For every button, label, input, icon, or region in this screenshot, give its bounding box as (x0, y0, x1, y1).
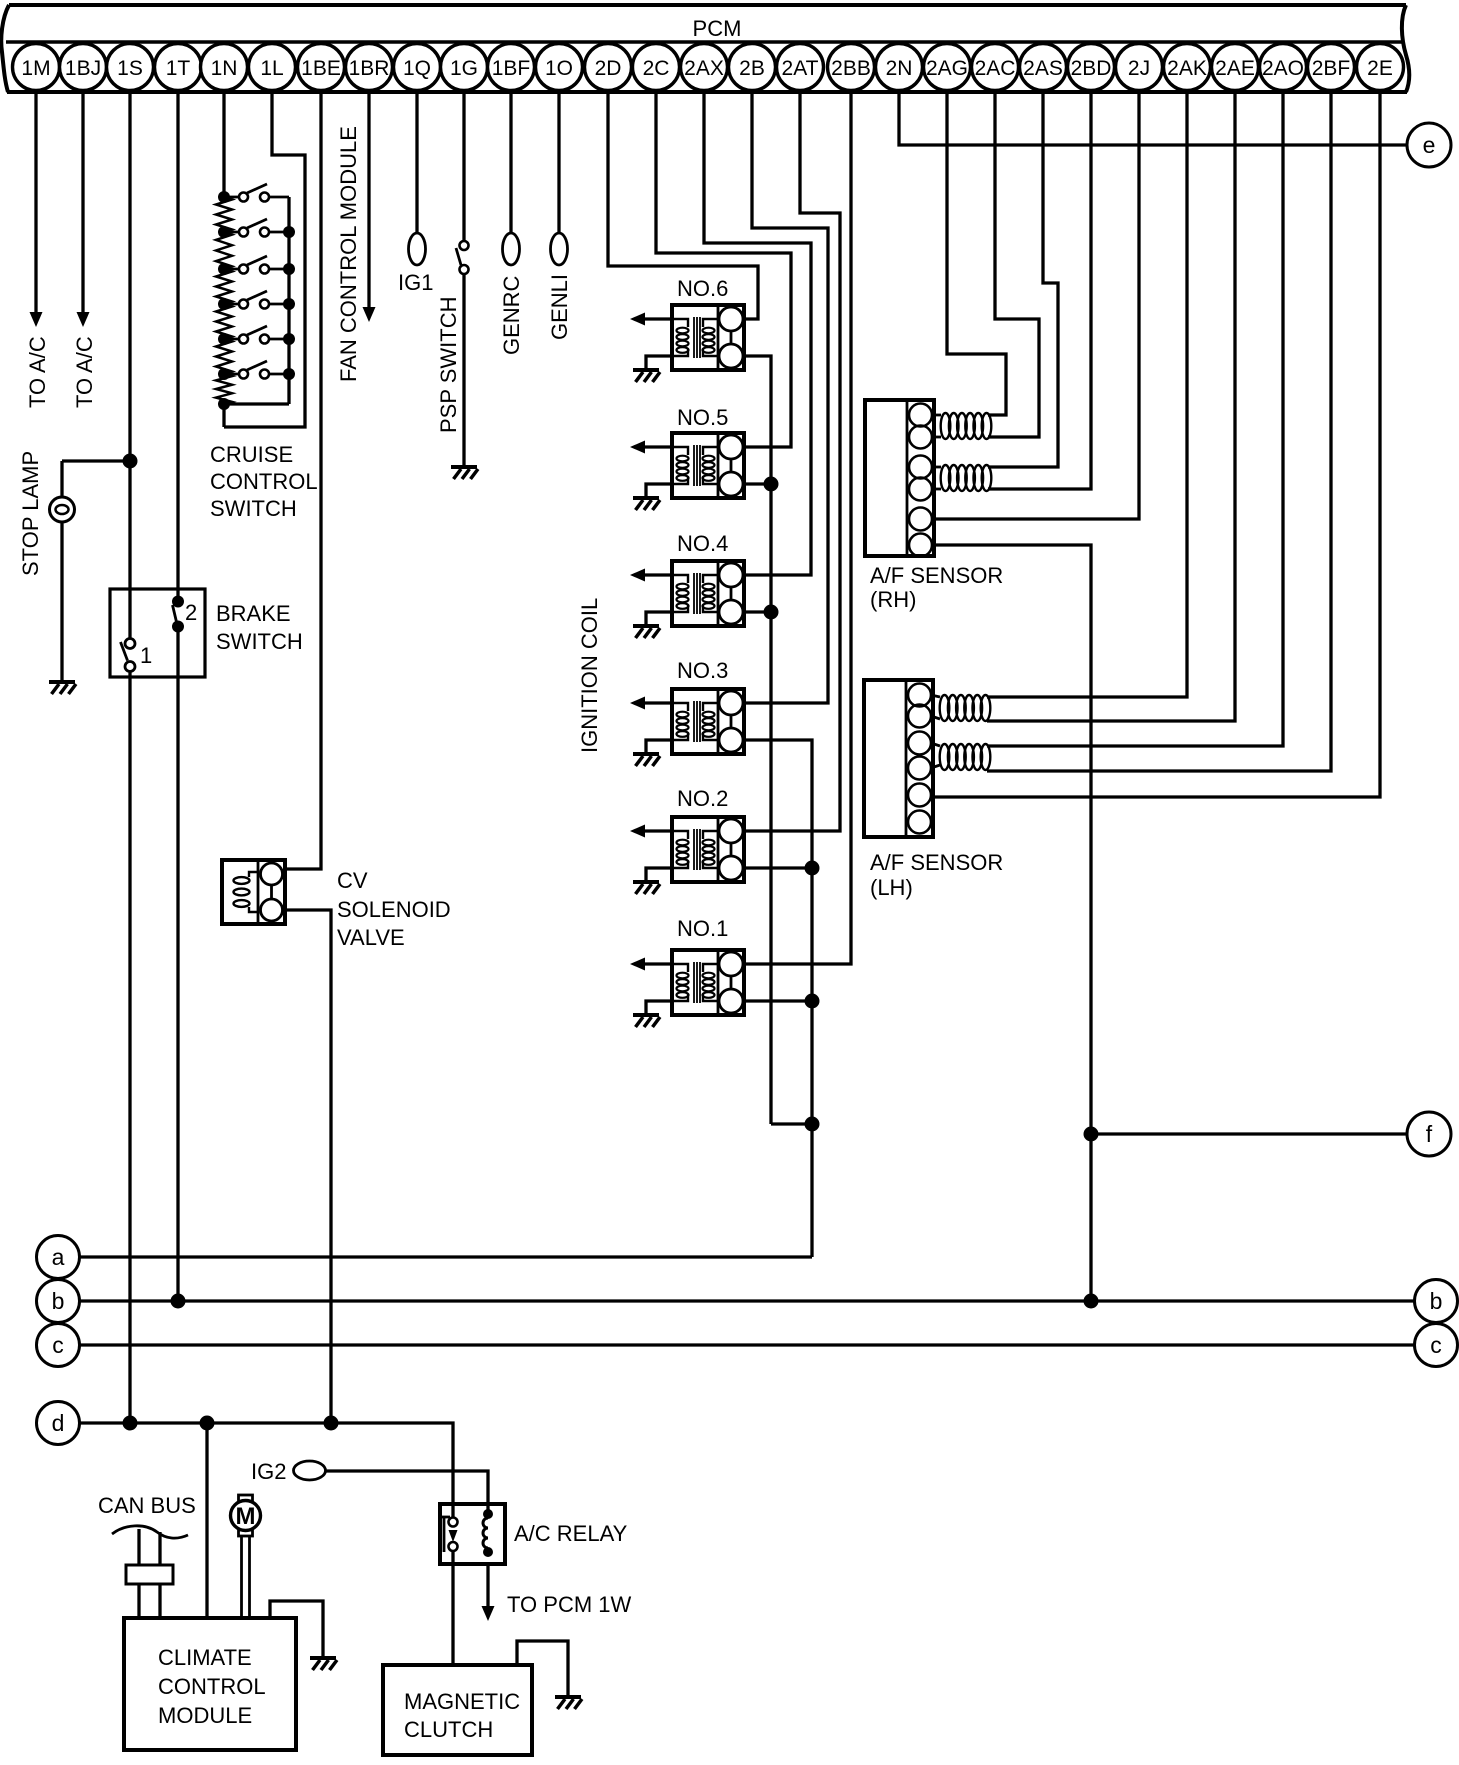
svg-text:TO A/C: TO A/C (25, 336, 50, 408)
svg-text:d: d (52, 1410, 65, 1436)
svg-text:1BF: 1BF (492, 57, 531, 80)
svg-text:1Q: 1Q (403, 57, 431, 80)
svg-text:2B: 2B (739, 57, 765, 80)
svg-text:c: c (1430, 1332, 1442, 1358)
svg-text:VALVE: VALVE (337, 925, 405, 950)
svg-text:2BF: 2BF (1312, 57, 1351, 80)
svg-text:2N: 2N (886, 57, 913, 80)
svg-text:NO.4: NO.4 (677, 531, 728, 556)
svg-text:c: c (52, 1332, 64, 1358)
svg-text:IGNITION COIL: IGNITION COIL (577, 598, 602, 753)
svg-text:GENLI: GENLI (547, 274, 572, 340)
svg-text:b: b (52, 1288, 65, 1314)
svg-text:CAN BUS: CAN BUS (98, 1493, 196, 1518)
svg-text:1O: 1O (545, 57, 573, 80)
svg-text:A/C RELAY: A/C RELAY (514, 1521, 628, 1546)
svg-text:STOP LAMP: STOP LAMP (18, 451, 43, 576)
svg-text:1S: 1S (117, 57, 143, 80)
svg-text:2AX: 2AX (684, 57, 724, 80)
svg-text:a: a (52, 1244, 65, 1270)
svg-text:NO.3: NO.3 (677, 658, 728, 683)
svg-text:MODULE: MODULE (158, 1703, 252, 1728)
svg-text:PSP SWITCH: PSP SWITCH (436, 296, 461, 433)
svg-text:1BE: 1BE (301, 57, 341, 80)
svg-text:SWITCH: SWITCH (216, 629, 303, 654)
svg-text:CLIMATE: CLIMATE (158, 1645, 252, 1670)
svg-text:CRUISE: CRUISE (210, 442, 293, 467)
svg-text:2E: 2E (1367, 57, 1393, 80)
svg-text:CONTROL: CONTROL (210, 469, 318, 494)
svg-text:NO.1: NO.1 (677, 916, 728, 941)
svg-text:BRAKE: BRAKE (216, 601, 291, 626)
svg-text:A/F SENSOR: A/F SENSOR (870, 563, 1003, 588)
svg-text:1BR: 1BR (349, 57, 390, 80)
svg-text:SOLENOID: SOLENOID (337, 897, 451, 922)
svg-text:f: f (1426, 1121, 1433, 1147)
svg-text:NO.2: NO.2 (677, 786, 728, 811)
svg-text:2BD: 2BD (1071, 57, 1112, 80)
svg-text:TO A/C: TO A/C (72, 336, 97, 408)
svg-text:1: 1 (140, 643, 152, 668)
svg-text:b: b (1430, 1288, 1443, 1314)
svg-text:TO PCM 1W: TO PCM 1W (507, 1592, 632, 1617)
svg-text:2AO: 2AO (1262, 57, 1304, 80)
svg-text:1BJ: 1BJ (65, 57, 101, 80)
svg-text:2: 2 (185, 600, 197, 625)
svg-text:1T: 1T (166, 57, 191, 80)
svg-text:2AG: 2AG (926, 57, 968, 80)
svg-text:e: e (1423, 132, 1436, 158)
svg-text:IG2: IG2 (251, 1459, 286, 1484)
svg-text:1N: 1N (211, 57, 238, 80)
svg-text:2AC: 2AC (975, 57, 1016, 80)
svg-text:2AK: 2AK (1167, 57, 1207, 80)
svg-text:2C: 2C (643, 57, 670, 80)
svg-text:NO.5: NO.5 (677, 405, 728, 430)
svg-text:1G: 1G (450, 57, 478, 80)
svg-text:2BB: 2BB (831, 57, 871, 80)
svg-text:CONTROL: CONTROL (158, 1674, 266, 1699)
svg-text:2AS: 2AS (1023, 57, 1063, 80)
svg-text:1L: 1L (260, 57, 283, 80)
svg-text:CLUTCH: CLUTCH (404, 1717, 493, 1742)
svg-text:PCM: PCM (693, 16, 742, 41)
svg-text:SWITCH: SWITCH (210, 496, 297, 521)
svg-text:(LH): (LH) (870, 875, 913, 900)
svg-text:M: M (236, 1503, 256, 1530)
svg-text:GENRC: GENRC (499, 275, 524, 355)
svg-text:FAN CONTROL MODULE: FAN CONTROL MODULE (336, 126, 361, 382)
svg-text:2J: 2J (1128, 57, 1150, 80)
svg-text:2D: 2D (595, 57, 622, 80)
svg-text:2AT: 2AT (782, 57, 819, 80)
svg-text:2AE: 2AE (1215, 57, 1255, 80)
svg-text:1M: 1M (21, 57, 50, 80)
svg-text:CV: CV (337, 868, 368, 893)
svg-text:A/F SENSOR: A/F SENSOR (870, 850, 1003, 875)
svg-text:MAGNETIC: MAGNETIC (404, 1689, 520, 1714)
svg-text:(RH): (RH) (870, 587, 916, 612)
svg-text:IG1: IG1 (398, 270, 433, 295)
svg-text:NO.6: NO.6 (677, 276, 728, 301)
